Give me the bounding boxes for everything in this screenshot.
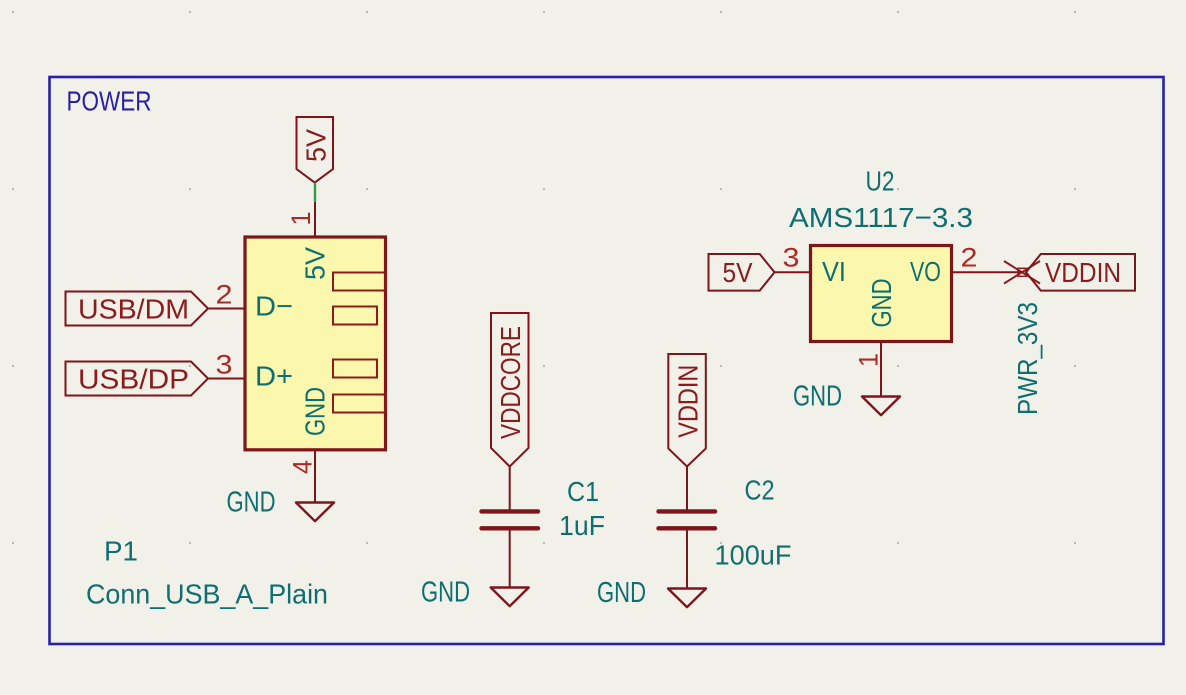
svg-text:POWER: POWER [67,86,152,117]
pin name GND [300,387,331,436]
net label PWR_3V3 [1012,302,1043,415]
ground symbol under C2 [597,577,706,609]
P1 contact bar 4 [333,395,386,413]
wire VDDCORE to C1 [509,467,511,512]
value AMS1117-3.3 [789,202,973,233]
wire VDDIN to C2 [686,467,688,512]
svg-text:5V: 5V [301,129,332,162]
svg-text:VDDIN: VDDIN [672,365,703,438]
hierarchical label USB/DP [66,362,209,396]
svg-text:C1: C1 [567,476,599,507]
svg-text:3: 3 [216,350,233,380]
sheet name POWER [67,86,152,117]
svg-text:USB/DM: USB/DM [78,294,189,325]
svg-text:GND: GND [421,577,470,609]
svg-text:5V: 5V [300,247,331,280]
svg-text:D+: D+ [255,361,293,392]
svg-text:GND: GND [793,381,842,413]
global label VDDIN (right) [1026,254,1135,291]
svg-text:GND: GND [227,487,276,519]
P1 contact bar 2 [333,307,377,325]
global label 5V (top) [297,117,334,183]
capacitor C2 [659,511,716,528]
svg-text:5V: 5V [723,257,753,288]
svg-text:Conn_USB_A_Plain: Conn_USB_A_Plain [86,579,328,610]
svg-text:D−: D− [255,291,293,322]
svg-text:U2: U2 [866,166,895,197]
pin name VI [822,256,846,287]
ground symbol under P1 [227,487,335,522]
global label VDDIN (middle) [668,354,706,467]
P1 contact bar 1 [333,273,386,291]
svg-text:1: 1 [286,212,316,226]
ground symbol under C1 [421,577,529,609]
pin 3 of P1 [208,350,245,380]
ground symbol under U2 [793,381,900,416]
reference C2 [745,475,775,506]
pin name GND (U2) [866,279,897,328]
svg-text:1uF: 1uF [559,510,605,541]
wire C1 to ground [509,529,511,588]
pin 2 of U2 [952,243,1023,273]
pin 2 of P1 [208,280,245,310]
pin 3 of U2 [775,243,811,273]
reference C1 [567,476,599,507]
pin name 5V [300,247,331,280]
global label VDDCORE [491,313,529,467]
svg-text:VDDCORE: VDDCORE [495,326,526,439]
pin name VO [910,256,941,287]
global label 5V (at U2) [709,254,775,291]
pin 1 of P1 [286,202,316,237]
svg-text:GND: GND [300,387,331,436]
regulator U2 body [811,246,952,342]
pin name D+ [255,361,293,392]
svg-text:100uF: 100uF [715,540,792,571]
svg-text:VDDIN: VDDIN [1045,257,1121,288]
svg-text:VI: VI [822,256,846,287]
connector P1 body [245,237,386,450]
pin 4 of P1 [288,450,318,503]
value Conn_USB_A_Plain [86,579,328,610]
capacitor C1 [482,511,539,528]
svg-text:PWR_3V3: PWR_3V3 [1012,302,1043,415]
unconnected pin marker [1004,261,1040,284]
svg-text:2: 2 [961,243,978,273]
svg-text:4: 4 [288,460,318,474]
pin 1 of U2 [854,342,884,397]
svg-text:2: 2 [216,280,233,310]
P1 contact bar 3 [333,360,377,378]
hierarchical label USB/DM [66,292,209,326]
svg-text:C2: C2 [745,475,775,506]
svg-text:VO: VO [910,256,941,287]
svg-text:GND: GND [866,279,897,328]
value 1uF [559,510,605,541]
wire C2 to ground [686,529,688,589]
svg-text:3: 3 [783,243,800,273]
svg-text:USB/DP: USB/DP [78,364,189,395]
wire 5V to pin 1 [314,183,316,202]
svg-text:AMS1117−3.3: AMS1117−3.3 [789,202,973,233]
pin name D- [255,291,293,322]
svg-text:1: 1 [854,353,884,367]
value 100uF [715,540,792,571]
reference P1 [104,536,138,567]
reference U2 [866,166,895,197]
svg-text:P1: P1 [104,536,138,567]
svg-text:GND: GND [597,577,646,609]
